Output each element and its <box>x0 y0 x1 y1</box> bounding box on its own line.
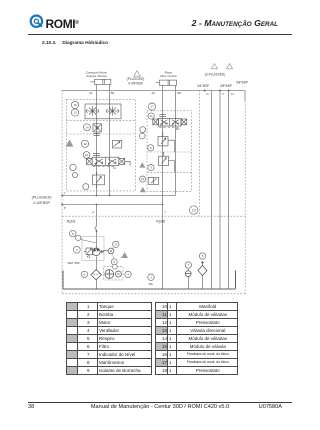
balloon 8 <box>70 230 76 236</box>
balloon 12 <box>81 140 88 147</box>
svg-text:17: 17 <box>150 105 154 109</box>
pressure valve right b <box>159 152 175 172</box>
shuttle valve item 14 <box>93 124 102 132</box>
balloon 10 manifold <box>190 206 198 214</box>
node: T plugged port <box>61 195 63 197</box>
svg-text:4-3/8"BSP: 4-3/8"BSP <box>128 81 143 85</box>
svg-text:R(3/8: R(3/8 <box>67 219 75 223</box>
pressure valve right a <box>158 132 174 152</box>
ROMI wordmark <box>46 18 79 29</box>
header logo + titles <box>0 0 320 56</box>
warning triangle top right 2 <box>226 64 232 69</box>
svg-text:B2: B2 <box>178 91 182 95</box>
balloon 18 left <box>83 184 89 190</box>
svg-text:3/8"BSP: 3/8"BSP <box>236 80 248 84</box>
balloon 7 <box>185 262 191 268</box>
svg-text:10: 10 <box>192 208 196 212</box>
svg-text:P: P <box>93 210 95 214</box>
svg-text:M: M <box>110 249 113 253</box>
node: T1 port <box>228 90 230 92</box>
solenoid valve item 12 <box>113 140 122 148</box>
wire: P riser crossing hop <box>95 227 97 230</box>
svg-text:T1: T1 <box>231 92 235 96</box>
wire: T manifold line <box>62 195 175 197</box>
balloon 13 <box>71 109 78 116</box>
module subdivision dash b <box>147 171 192 173</box>
node: B1/T junction <box>109 195 111 197</box>
filter diamond <box>91 270 101 280</box>
svg-text:T: T <box>164 210 166 214</box>
balloon 3 <box>113 241 119 247</box>
wire: D line <box>211 91 213 290</box>
wire: main top port line <box>62 90 245 92</box>
svg-text:SET 35#: SET 35# <box>68 261 80 265</box>
wire: T1 line <box>228 91 230 290</box>
svg-text:(3-PLUGGED): (3-PLUGGED) <box>205 72 226 76</box>
balloon 15 <box>71 101 78 108</box>
pump circle <box>93 248 101 256</box>
section heading <box>42 41 108 46</box>
node: P plugged port <box>61 204 63 206</box>
balloon 11 left <box>83 152 90 159</box>
svg-text:B1: B1 <box>111 91 115 95</box>
module subdivision dash d <box>67 133 136 135</box>
fan unit dashed box <box>104 266 124 280</box>
fan circle <box>105 270 114 279</box>
warning triangle right module b <box>140 187 146 192</box>
svg-text:Abre / Fecha: Abre / Fecha <box>160 74 177 78</box>
wire: pump to filter <box>96 257 98 270</box>
valve module dashed box left <box>67 99 136 191</box>
wire: P manifold line <box>62 204 162 206</box>
balloon 11 right <box>148 113 154 119</box>
unit dashed boundary bottom edge <box>62 293 245 295</box>
svg-text:16: 16 <box>141 177 145 181</box>
wire: B1 line <box>109 84 111 195</box>
label: cabeçote móvel text <box>32 70 248 205</box>
fan motor M circle <box>115 271 121 277</box>
node: A2/P junction <box>162 204 164 206</box>
module subdivision dash c <box>67 119 136 121</box>
level indicator symbol <box>185 269 191 277</box>
balloon 4 <box>125 271 131 277</box>
module subdivision dash a <box>147 151 192 153</box>
balloon 9 mid <box>140 127 146 133</box>
svg-text:14: 14 <box>85 125 89 129</box>
warning triangle left module <box>66 140 74 147</box>
valve module dashed box right <box>147 111 192 192</box>
gauge link <box>81 240 97 244</box>
warning triangle pump <box>121 252 128 258</box>
balloon 16 <box>140 176 146 182</box>
motor coupling shaft <box>100 250 108 253</box>
cylinder: placa <box>156 80 177 85</box>
balloon 2 mid <box>139 133 145 139</box>
footer <box>28 402 292 403</box>
balloon 17 <box>148 103 155 110</box>
svg-text:13: 13 <box>73 111 77 115</box>
warning triangle right module a <box>139 162 145 167</box>
wire: B2 line <box>175 85 177 195</box>
chapter heading right <box>0 19 278 29</box>
leader motor to balloon9 <box>113 254 115 260</box>
balloon 6 <box>81 271 87 277</box>
header rule <box>28 34 292 35</box>
wire: P riser to pump <box>96 205 98 251</box>
svg-text:11: 11 <box>85 153 88 157</box>
cylinder: cabeçote móvel <box>90 79 111 84</box>
balloon numbers <box>72 103 204 279</box>
gauge symbol pump <box>76 235 81 240</box>
svg-text:11: 11 <box>150 114 153 118</box>
balloon 5 <box>199 253 205 259</box>
manifold dashed right edge <box>199 90 201 216</box>
wire: level indicator drop <box>188 277 190 290</box>
svg-text:Avança / Recua: Avança / Recua <box>86 74 107 78</box>
relief valve <box>84 248 95 258</box>
breather symbol <box>198 262 207 276</box>
svg-text:D1: D1 <box>176 127 180 131</box>
check valve left <box>89 106 96 116</box>
svg-text:M: M <box>117 272 120 276</box>
warning triangle top left <box>134 71 141 77</box>
directional valve left (item 11) <box>86 134 130 167</box>
svg-text:T: T <box>64 191 66 195</box>
tank outline <box>63 271 236 290</box>
motor M circle <box>108 248 114 254</box>
warning triangles <box>66 64 233 258</box>
svg-text:P: P <box>64 206 66 210</box>
svg-text:3/4"BSP: 3/4"BSP <box>197 84 209 88</box>
svg-text:12: 12 <box>83 142 87 146</box>
node: D port <box>204 90 206 92</box>
check valve right <box>109 106 116 116</box>
wire: A2 / tank return line <box>162 85 164 289</box>
wire: A1 line <box>96 84 98 195</box>
BALLOONS (item number circles) <box>70 101 206 280</box>
node: F port <box>219 90 221 92</box>
balloon 8 manifold <box>70 164 76 170</box>
unit dashed boundary right edge <box>244 101 246 294</box>
ROMI logo <box>29 13 47 31</box>
wire: right outer corner drop <box>244 91 246 102</box>
svg-text:2-3/8"BSP: 2-3/8"BSP <box>33 201 50 205</box>
wire: breather drop <box>202 276 204 290</box>
node: P riser junction <box>96 204 98 206</box>
balloon 9 <box>111 259 117 265</box>
svg-text:R(3/8: R(3/8 <box>156 219 164 223</box>
svg-text:15: 15 <box>73 103 77 107</box>
node: gauge tee <box>96 230 98 232</box>
check valve block (pilot operated check valves) <box>85 104 121 119</box>
svg-text:25L: 25L <box>149 282 154 286</box>
unit dashed boundary left edge <box>61 90 63 294</box>
balloon 14 <box>84 124 91 131</box>
gauge circle small left <box>73 173 78 178</box>
balloon 2 <box>73 246 80 253</box>
svg-text:F: F <box>223 92 225 96</box>
junction dots <box>61 90 229 233</box>
wire: F line <box>219 91 221 290</box>
small circle under balloon 9 <box>113 264 118 269</box>
svg-text:3/8"BSP: 3/8"BSP <box>220 84 232 88</box>
balloon 1 <box>148 274 154 280</box>
wire: filter to tank bottom <box>96 280 98 289</box>
directional valve right (item 13) <box>153 114 187 127</box>
warning triangle top right 1 <box>211 64 217 69</box>
leader balloon3 to motor <box>112 247 114 249</box>
svg-text:(PLUGGED): (PLUGGED) <box>32 195 52 199</box>
balloon 5 right <box>148 145 154 151</box>
svg-text:A1: A1 <box>89 91 93 95</box>
pump frame <box>82 237 104 261</box>
pressure reducing valve left lower <box>93 172 105 188</box>
svg-text:A2: A2 <box>152 91 156 95</box>
manifold/power-unit dashed separator <box>62 215 245 217</box>
balloon 3 right <box>148 165 154 171</box>
svg-text:D: D <box>207 92 209 96</box>
solenoid valve item 16 <box>148 177 159 184</box>
node: A1/T junction <box>96 195 98 197</box>
